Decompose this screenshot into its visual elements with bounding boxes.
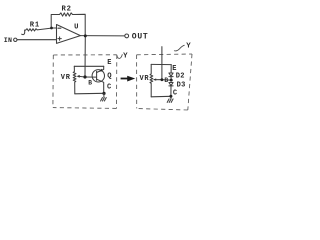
wire IN to op-amp + input [17,39,56,41]
minus sign [58,27,61,29]
wire D2 to B node [170,77,172,81]
node OUT terminal circle [125,34,129,38]
wire wiper to B node (right) [154,79,171,82]
junction dot inverting input [50,27,53,30]
svg-text:Q: Q [107,72,112,80]
svg-text:R1: R1 [30,21,40,29]
wire right box top rail [151,63,171,65]
junction dot collector/ground node [102,92,105,95]
svg-text:B: B [164,77,168,84]
svg-text:R2: R2 [62,5,72,13]
resistor R2 feedback [51,13,85,36]
junction dot B node right [170,79,173,82]
node IN terminal circle [14,38,17,41]
transistor Q1 circle [92,70,104,82]
svg-text:VR: VR [61,74,71,82]
svg-text:D3: D3 [177,81,186,89]
diode D2 [169,73,173,77]
svg-text:E: E [107,59,111,67]
arrowhead VR right wiper [153,78,156,80]
dashed box Y (left) [53,55,117,109]
ground (left box) [101,93,107,101]
arrowhead VR left wiper [77,75,80,78]
wire right box bottom rail [151,95,171,98]
svg-text:C: C [173,89,177,97]
equivalence arrow [121,76,136,82]
arrowhead emitter PNP [99,69,103,72]
wire D3 to C node [170,86,172,96]
plus sign [58,37,61,40]
wire E lead [170,65,172,73]
wire wiper to base node [79,75,85,78]
leader to label Y (right) [174,45,185,51]
wire stub into right box [161,47,163,80]
dashed box Y (right) [137,54,192,110]
svg-text:Y: Y [186,42,191,50]
transistor Q1 emitter [97,66,104,72]
svg-text:OUT: OUT [132,33,149,42]
junction dot base node [83,75,86,78]
wire base lead [85,76,97,78]
wire solid box bottom rail [75,92,104,95]
transistor Q1 base bar [96,71,98,80]
wire output to base node [84,36,86,77]
op-amp U1 triangle [57,25,81,44]
svg-text:D2: D2 [176,72,185,80]
wire op-amp output to OUT [80,35,124,37]
svg-text:VR: VR [140,75,150,83]
junction dot output node [84,34,87,37]
svg-text:C: C [107,83,111,91]
potentiometer VR (right box) [150,64,153,96]
wire inverting input stub [51,27,56,29]
resistor R1 [22,30,25,34]
diode D3 [169,83,173,86]
potentiometer VR (left box) [73,66,76,94]
svg-text:B: B [88,80,92,87]
svg-text:U: U [74,23,78,31]
svg-text:Y: Y [123,52,128,60]
svg-text:IN: IN [4,37,13,44]
transistor Q1 collector [97,79,104,93]
ground (right box) [167,96,173,102]
leader to label Y (left) [117,54,123,58]
junction dot right wiper node [161,78,164,81]
junction dot C node right [169,95,172,98]
wire solid box top rail [74,65,103,67]
